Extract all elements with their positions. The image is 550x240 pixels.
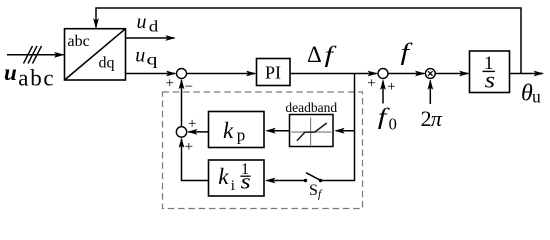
summing junction S2 bbox=[378, 69, 388, 79]
svg-text:s: s bbox=[485, 68, 496, 93]
wire f0 input bbox=[380, 80, 386, 104]
svg-text:abc: abc bbox=[68, 33, 90, 50]
summing junction S1 bbox=[177, 69, 187, 79]
deadband block bbox=[290, 115, 334, 147]
wire k_i to S3 bbox=[179, 138, 209, 181]
svg-text:u: u bbox=[137, 11, 147, 33]
svg-text:f: f bbox=[325, 42, 338, 67]
svg-text:d: d bbox=[149, 18, 159, 35]
svg-text:π: π bbox=[431, 106, 443, 131]
svg-text:dq: dq bbox=[99, 55, 115, 72]
svg-text:k: k bbox=[218, 164, 229, 189]
wire k_p to S3 bbox=[187, 129, 209, 135]
svg-text:f: f bbox=[318, 189, 323, 201]
block PI bbox=[257, 59, 291, 86]
svg-text:deadband: deadband bbox=[285, 100, 337, 115]
multiplier bbox=[425, 69, 435, 79]
dashed subsystem box bbox=[163, 92, 363, 209]
wire: theta feedback (top) bbox=[93, 8, 521, 74]
svg-text:u: u bbox=[135, 45, 145, 67]
block k_p bbox=[209, 112, 265, 148]
svg-text:S: S bbox=[309, 182, 318, 199]
deadband icon bbox=[291, 118, 331, 146]
svg-text:+: + bbox=[188, 116, 196, 132]
svg-text:+: + bbox=[387, 79, 395, 95]
svg-text:u: u bbox=[532, 87, 541, 107]
summing junction S3 bbox=[176, 127, 186, 137]
svg-text:+: + bbox=[185, 139, 193, 155]
svg-text:i: i bbox=[231, 178, 235, 194]
svg-text:p: p bbox=[237, 126, 246, 145]
svg-text:abc: abc bbox=[18, 66, 55, 91]
wire S2 to multiplier bbox=[388, 71, 425, 77]
block k_i 1/s bbox=[209, 160, 265, 196]
wire S3 up to S1 bbox=[179, 79, 185, 127]
wire branch from delta-f down to switch bbox=[321, 74, 355, 181]
svg-text:k: k bbox=[223, 118, 234, 143]
svg-text:PI: PI bbox=[265, 63, 281, 83]
svg-text:s: s bbox=[241, 169, 251, 194]
svg-text:+: + bbox=[165, 76, 173, 92]
wire multiplier to integrator bbox=[435, 71, 469, 77]
wire S1 to PI bbox=[187, 71, 257, 77]
svg-text:u: u bbox=[4, 60, 17, 85]
wire u_q output bbox=[126, 71, 177, 77]
wire into deadband bbox=[334, 128, 354, 134]
svg-text:Δ: Δ bbox=[307, 42, 322, 67]
wire u_d output bbox=[126, 35, 176, 41]
svg-text:q: q bbox=[147, 52, 158, 69]
three-phase slash marks bbox=[24, 46, 42, 64]
svg-text:f: f bbox=[401, 40, 414, 66]
svg-text:0: 0 bbox=[389, 115, 397, 134]
switch S_f bbox=[304, 173, 322, 183]
integrator block 1/s bbox=[470, 51, 510, 93]
wire deadband to k_p bbox=[265, 128, 290, 134]
svg-text:+: + bbox=[367, 75, 375, 91]
wire 2pi input bbox=[427, 79, 433, 104]
wire switch to k_i bbox=[265, 178, 306, 184]
wire PI to S2 bbox=[290, 71, 378, 77]
transformation block abc/dq bbox=[65, 29, 126, 80]
wire: three-phase input bbox=[7, 52, 65, 58]
wire output theta_u bbox=[510, 71, 545, 77]
